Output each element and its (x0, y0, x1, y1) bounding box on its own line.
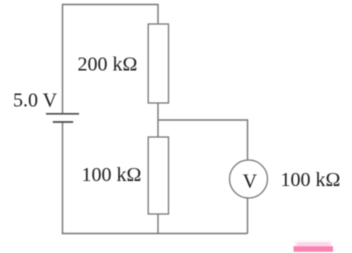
wire: top horizontal (63, 5, 159, 114)
battery B1 negative plate (short) (53, 121, 73, 123)
resistor R1 200 kOhm body (148, 24, 168, 103)
wire: R2 bottom to bottom rail (157, 214, 159, 234)
decorative pink highlight bar (296, 242, 331, 247)
svg-text:100 kΩ: 100 kΩ (82, 164, 142, 186)
battery B1 positive plate (long) (46, 113, 79, 115)
wire: battery bottom to bottom rail (62, 122, 64, 234)
svg-text:100 kΩ: 100 kΩ (281, 169, 341, 191)
svg-text:5.0 V: 5.0 V (13, 90, 58, 112)
wire: R1 bottom to R2 top (157, 103, 159, 137)
svg-text:V: V (243, 171, 258, 193)
wire: voltmeter to bottom rail (247, 198, 249, 234)
svg-text:200 kΩ: 200 kΩ (78, 54, 138, 76)
wire: voltmeter branch top (158, 120, 248, 160)
voltmeter U1 circle (230, 160, 268, 198)
resistor R2 100 kOhm body (148, 137, 168, 214)
wire: bottom rail (62, 233, 248, 235)
